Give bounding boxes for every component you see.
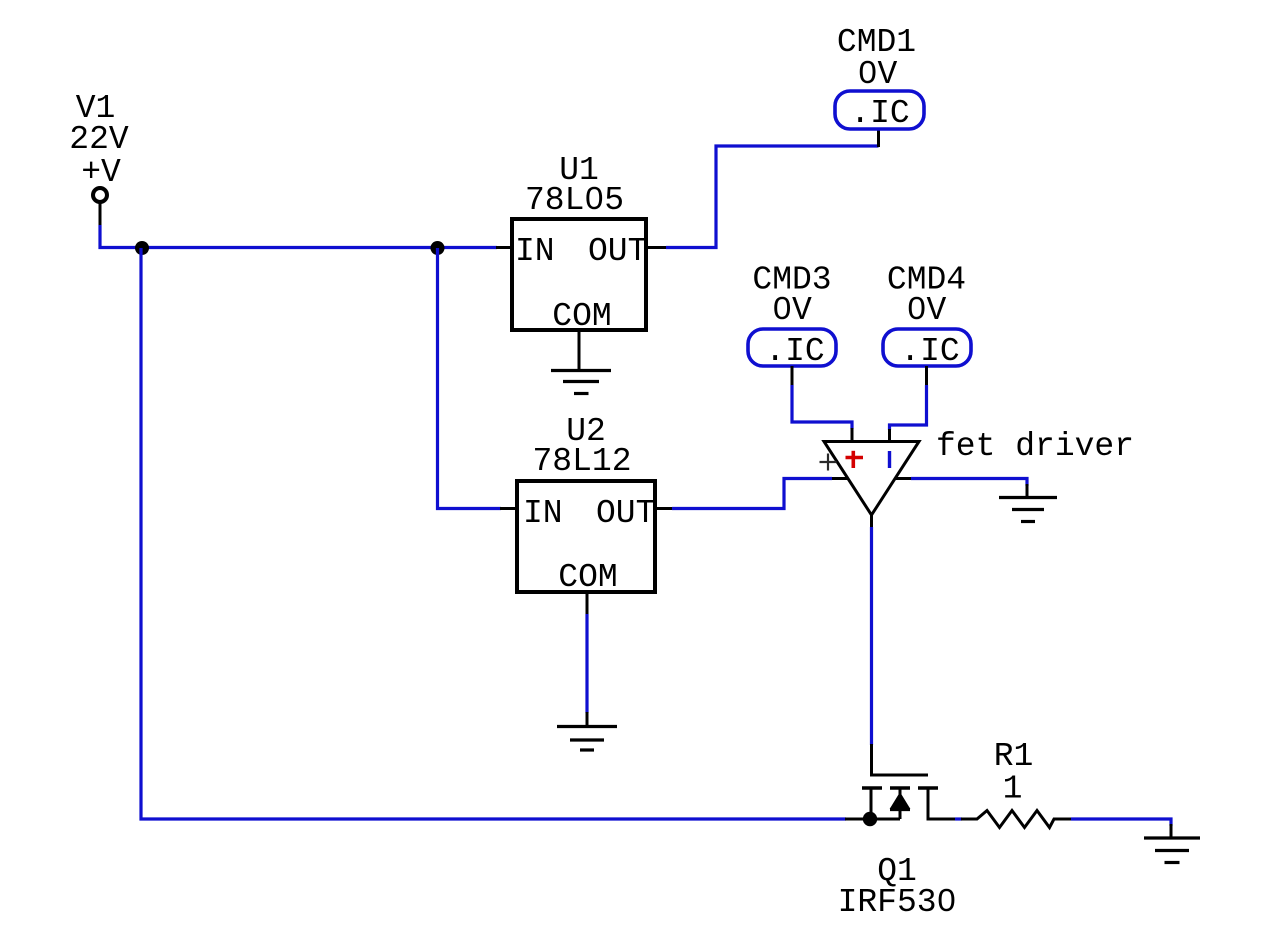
blue - input marker <box>888 451 891 468</box>
svg-text:.IC: .IC <box>900 333 959 370</box>
.IC flag CMD1 <box>835 91 924 129</box>
stub to ground right of driver <box>1026 484 1029 498</box>
wire from U1 OUT up to CMD1 .IC <box>666 146 879 248</box>
Q1 body diode cathode lead <box>899 809 902 819</box>
ground symbol below U1 <box>551 371 611 394</box>
op-amp U3 fet driver triangle <box>824 442 919 516</box>
wire CMD3 to driver + input <box>792 385 852 429</box>
zero glyph patches (plain zeros) <box>591 68 950 903</box>
CMD4 pin stub <box>925 366 928 386</box>
red + input marker <box>846 451 864 468</box>
svg-text:1: 1 <box>1003 771 1023 808</box>
U2 COM pin stub <box>586 592 589 615</box>
wire from V1 down and right to U1 IN <box>100 225 497 248</box>
wire R1 to ground <box>1071 819 1171 826</box>
ground symbol right of driver <box>999 498 1057 522</box>
ground symbol below U2 <box>557 727 617 751</box>
Q1 body diode bar <box>890 808 910 811</box>
MOSFET Q1 gate lead <box>872 744 929 775</box>
wire CMD4 to driver - input <box>890 385 927 430</box>
junction node at +V rail branch <box>135 241 149 255</box>
U1 OUT pin stub <box>646 246 667 249</box>
.IC flag CMD3 <box>748 329 836 366</box>
svg-text:COM: COM <box>552 298 611 335</box>
Q1 channel bar body <box>890 786 910 789</box>
wire U2 COM down <box>585 614 588 713</box>
svg-text:IRF530: IRF530 <box>838 884 957 921</box>
stub to ground right of R1 <box>1170 824 1173 838</box>
svg-text:IN: IN <box>523 495 563 532</box>
regulator U2 78L12 body <box>517 481 655 592</box>
wire driver right to ground <box>911 479 1027 487</box>
junction node at U2 branch <box>431 241 445 255</box>
wire branch down to U2 IN <box>438 248 502 509</box>
black + pin marker on driver left edge <box>820 454 837 471</box>
svg-text:0V: 0V <box>907 292 947 329</box>
regulator U1 78L05 body <box>512 219 646 330</box>
wire from +V rail down left side and along bottom to Q1 drain <box>141 248 846 819</box>
Q1 body diode anode lead <box>899 788 902 796</box>
wire U2 OUT to driver + input <box>672 479 832 509</box>
pin stub from V1 terminal <box>99 204 102 226</box>
svg-text:0V: 0V <box>772 292 812 329</box>
.IC flag CMD4 <box>883 329 971 366</box>
wire Q1 source to R1 <box>955 817 962 820</box>
svg-text:OUT: OUT <box>596 495 655 532</box>
stub to ground below U2 <box>586 712 589 727</box>
Q1 channel bar source side <box>918 786 938 789</box>
junction node at Q1 drain <box>863 812 877 826</box>
driver left input stub from U2 OUT <box>831 477 848 480</box>
wire driver output down to Q1 gate <box>870 527 873 745</box>
svg-text:R1: R1 <box>994 738 1034 775</box>
CMD3 pin stub <box>791 366 794 386</box>
Q1 body diode triangle <box>891 793 910 809</box>
drain rail black segment under Q1 <box>845 818 900 821</box>
svg-text:fet driver: fet driver <box>936 428 1134 465</box>
svg-text:22V: 22V <box>69 121 129 158</box>
svg-text:IN: IN <box>515 233 555 270</box>
CMD1 .IC pin stub <box>877 129 880 147</box>
driver - input pin stub <box>888 429 891 442</box>
U1 COM pin wire to ground <box>578 330 581 370</box>
ground symbol right of R1 <box>1144 838 1200 863</box>
svg-text:COM: COM <box>558 559 617 596</box>
svg-text:78L12: 78L12 <box>532 443 631 480</box>
U1 IN pin stub <box>496 246 512 249</box>
driver output stub right <box>895 477 912 480</box>
terminal circle of V1 (+V port) <box>93 188 107 202</box>
Q1 drain connection down to rail <box>870 788 873 819</box>
Q1 source lead down and right <box>928 788 956 819</box>
driver output apex stub <box>870 513 873 528</box>
svg-text:0V: 0V <box>858 56 898 93</box>
driver + input pin stub <box>851 428 854 442</box>
resistor R1 <box>961 811 1072 828</box>
U2 OUT pin stub <box>655 507 673 510</box>
svg-text:+V: +V <box>81 154 121 191</box>
svg-text:.IC: .IC <box>850 95 909 132</box>
svg-text:78L05: 78L05 <box>525 182 624 219</box>
U2 IN pin stub <box>500 507 517 510</box>
svg-text:OUT: OUT <box>588 233 647 270</box>
svg-text:.IC: .IC <box>765 333 824 370</box>
Q1 channel bar drain side <box>862 786 882 789</box>
